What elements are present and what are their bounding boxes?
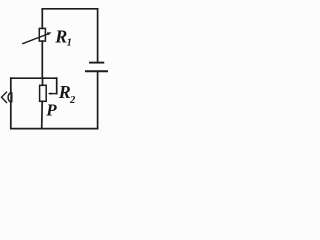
speaker body half-disc bbox=[2, 92, 12, 103]
battery top plate (short) bbox=[90, 62, 103, 64]
resistor R1 body bbox=[39, 28, 45, 41]
svg-text:P: P bbox=[45, 101, 57, 120]
svg-text:R: R bbox=[54, 26, 67, 46]
wire left upper bbox=[10, 78, 12, 92]
wiper arrow P horizontal bbox=[50, 93, 57, 95]
wire middle horizontal junction bbox=[11, 77, 57, 79]
speaker horn bbox=[2, 92, 8, 103]
wire right upper to battery bbox=[97, 9, 99, 63]
rheostat R1 arrow line bbox=[22, 34, 49, 44]
wiper wire vertical bbox=[56, 78, 58, 93]
svg-text:1: 1 bbox=[67, 38, 72, 49]
wire bottom horizontal bbox=[11, 128, 98, 130]
wire R2 bottom lead bbox=[41, 101, 44, 128]
wire R1 branch upper bbox=[41, 9, 43, 29]
wire left lower bbox=[10, 102, 12, 128]
wiper arrowhead bbox=[48, 92, 52, 95]
svg-text:2: 2 bbox=[69, 95, 76, 106]
svg-text:R: R bbox=[58, 82, 71, 102]
potentiometer R2 body bbox=[40, 85, 47, 101]
battery bottom plate (long) bbox=[86, 70, 107, 72]
wire right lower from battery bbox=[97, 71, 99, 128]
rheostat R1 arrowhead bbox=[47, 32, 52, 35]
wire R1 to junction bbox=[41, 41, 43, 78]
wire top horizontal bbox=[42, 8, 97, 10]
wire R2 top lead bbox=[42, 78, 44, 85]
